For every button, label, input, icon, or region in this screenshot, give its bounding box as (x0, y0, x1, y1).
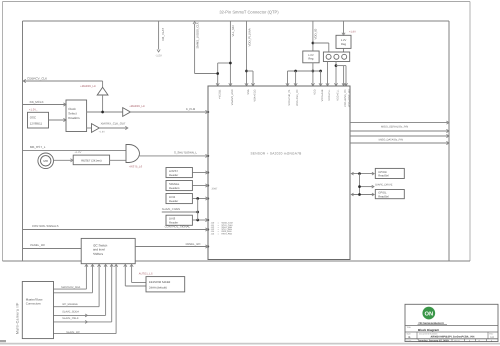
svg-text:SMMS_LVDS0_CLK: SMMS_LVDS0_CLK (196, 22, 200, 49)
rev cell (487, 332, 489, 339)
reset supervisor U7 (73, 155, 109, 165)
svg-text:VDD: VDD (314, 89, 317, 94)
title block divider (405, 338, 498, 340)
title block divider (405, 331, 498, 333)
svg-text:GPIO8: GPIO8 (378, 171, 387, 174)
junction dot (216, 72, 219, 75)
wire K_PLM to sensor (130, 111, 206, 113)
svg-text:VDD+12V5_PD: VDD+12V5_PD (344, 89, 347, 107)
pin arrow into sensor top (251, 83, 254, 86)
title block divider (405, 324, 498, 326)
svg-text:ON: ON (424, 310, 433, 317)
rail wire y71 (288, 70, 321, 72)
buffer U6 (92, 124, 100, 133)
wire direction arrow (85, 314, 87, 317)
svg-text:GPIOL: GPIOL (378, 192, 387, 195)
power tap wire KB_VLAT (158, 21, 160, 50)
buffer U4 clock buffer up (102, 81, 104, 87)
svg-text:S_SHUTDOWN_L: S_SHUTDOWN_L (174, 150, 197, 154)
junction dot (229, 62, 232, 65)
wire control signals (23, 229, 207, 231)
svg-text:AUTO1_LS: AUTO1_LS (139, 273, 153, 276)
junction dot (358, 172, 361, 175)
svg-text:ReadSel: ReadSel (378, 195, 389, 198)
svg-text:SLAVE_I2C: SLAVE_I2C (66, 331, 80, 334)
svg-text:VNA: VNA (247, 89, 250, 94)
ON Semiconductor logo (423, 307, 436, 320)
pin arrow into sensor top (286, 83, 289, 86)
wire i2c riser (54, 306, 100, 308)
push button SW1 MR (38, 153, 54, 169)
svg-text:RST0_PAN: RST0_PAN (221, 232, 232, 235)
svg-text:VDD+PH1_PC: VDD+PH1_PC (296, 89, 299, 106)
svg-text:+1.8V: +1.8V (349, 30, 356, 33)
branch to filter box (313, 42, 329, 44)
svg-text:+1.5V_: +1.5V_ (29, 109, 38, 112)
wire i2c riser (54, 288, 87, 290)
wire SMMS_LVDS0 to connector (194, 24, 196, 74)
wire to xmit buffer (87, 127, 92, 129)
wire osc output (49, 119, 65, 121)
wire panel i2c to sensor (135, 246, 207, 248)
wire reset out to gate (110, 159, 126, 161)
wire MOSI pair line 1 (350, 122, 448, 124)
filter FB1 ferrite bead array (323, 52, 349, 62)
svg-text:-1.5V: -1.5V (155, 55, 162, 58)
bottom page edge line (0, 343, 500, 345)
wire pin VCG11 (217, 74, 219, 86)
wire pin VNA from connector (246, 21, 248, 85)
svg-text:MOSI_SERIAL/Ox_P/N: MOSI_SERIAL/Ox_P/N (381, 126, 408, 129)
svg-text:24AA (default): 24AA (default) (149, 286, 167, 290)
svg-text:32-Pin SmmsT Connector (QTP): 32-Pin SmmsT Connector (QTP) (219, 10, 279, 15)
junction dot (196, 197, 199, 200)
svg-text:SENSOR + SA2020 mONGA7B: SENSOR + SA2020 mONGA7B (250, 151, 301, 155)
svg-text:MASTER2_SDA: MASTER2_SDA (61, 286, 80, 289)
svg-text:ReadSel: ReadSel (378, 175, 389, 178)
svg-text:AR0820-MIPI&SPI_SerDesPCBA_V04: AR0820-MIPI&SPI_SerDesPCBA_V04 (431, 336, 476, 339)
junction dot (294, 70, 297, 73)
junction dot (101, 111, 104, 114)
svg-text:VLL_NN: VLL_NN (231, 26, 235, 37)
svg-text:CONTROL SIGNALS: CONTROL SIGNALS (32, 224, 59, 228)
wire gpio8 bus (351, 173, 374, 175)
block DVI2 Reader (166, 194, 192, 204)
svg-text:Connectors: Connectors (26, 302, 41, 306)
junction dot (319, 70, 322, 73)
svg-text:Multi-Camera I/F: Multi-Camera I/F (15, 302, 19, 334)
oscillator Y1 (28, 112, 49, 128)
wire i2c riser (132, 282, 146, 284)
wire reg output down (312, 63, 314, 85)
junction dot (196, 211, 199, 214)
svg-text:3047: 3047 (212, 187, 218, 190)
junction dot (335, 64, 338, 67)
svg-text:VGA+ECG: VGA+ECG (254, 89, 257, 101)
pin arrow into sensor top (344, 83, 347, 86)
clock select block (66, 100, 87, 132)
svg-text:VDD+ELL: VDD+ELL (337, 89, 340, 101)
pin arrow into sensor top (311, 83, 314, 86)
wire i2c riser (54, 321, 112, 323)
svg-text:+MARK5_L8: +MARK5_L8 (80, 85, 96, 88)
svg-text:EEPROM 64KBit: EEPROM 64KBit (149, 280, 170, 284)
svg-text:CDBRCV_CLK: CDBRCV_CLK (27, 77, 47, 81)
svg-text:+1.8V: +1.8V (75, 151, 82, 154)
block SIGNAL Readers (166, 181, 192, 191)
svg-text:MB_RST_L: MB_RST_L (30, 145, 46, 149)
svg-text:Reader: Reader (169, 173, 178, 177)
pin arrow into sensor top (216, 83, 219, 86)
svg-text:+1.8V: +1.8V (99, 130, 106, 133)
i2c switch block (81, 238, 135, 263)
svg-text:Shifters: Shifters (93, 252, 104, 256)
pin arrow into sensor top (229, 83, 232, 86)
svg-text:Block Diagram: Block Diagram (418, 328, 439, 332)
svg-text:Readers: Readers (169, 186, 180, 190)
svg-text:1.0V: 1.0V (308, 54, 314, 57)
svg-text:VDD+PH0_P1: VDD+PH0_P1 (288, 89, 291, 106)
pin arrow into sensor top (342, 83, 345, 86)
wire i2c riser (54, 292, 93, 294)
junction dot (312, 42, 315, 45)
wire KB_MCLK input (23, 104, 65, 106)
svg-text:Select: Select (68, 111, 77, 115)
wire direction arrow (85, 320, 87, 323)
block DVI3 Reader (166, 215, 192, 225)
svg-text:+MARK5_L8: +MARK5_L8 (129, 105, 145, 108)
bottom-left page mark (0, 340, 6, 342)
pin arrow into sensor top (326, 83, 329, 86)
block A7RST Reader (166, 168, 192, 178)
wire XMITRX_CLK_OUT (99, 127, 126, 129)
connector J1 master/slave (22, 282, 53, 339)
svg-text:Reg: Reg (308, 58, 313, 61)
pin arrow into sensor top (294, 83, 297, 86)
svg-text:PANEL_I2C: PANEL_I2C (30, 243, 45, 247)
buffer U5 (123, 108, 131, 117)
wire i2c riser (54, 333, 117, 335)
block GPIOL ReadSel (375, 190, 404, 199)
svg-text:VGA/V9_AND: VGA/V9_AND (231, 89, 234, 105)
svg-text:VDD+12VT_PN: VDD+12VT_PN (348, 89, 351, 107)
page border (3, 1, 471, 3)
svg-text:VDD_IO: VDD_IO (314, 28, 318, 40)
svg-text:RESET (241ms): RESET (241ms) (81, 158, 101, 162)
pin arrow into sensor top (245, 83, 248, 86)
wire i2c riser (54, 314, 106, 316)
regulator U3 1.2V Reg (336, 35, 351, 48)
svg-text:Reg: Reg (341, 43, 346, 46)
svg-text:XMITRX_CLK_OUT: XMITRX_CLK_OUT (101, 122, 126, 126)
svg-text:VDD+AHB: VDD+AHB (321, 89, 324, 101)
svg-text:Readers: Readers (68, 116, 80, 120)
svg-text:12788511: 12788511 (30, 121, 43, 125)
wire 1.0V reg feed from connector (312, 21, 314, 51)
svg-text:CONTROL_SIGNAL: CONTROL_SIGNAL (165, 224, 191, 228)
wire CDBRCV_CLK to frame (23, 80, 103, 82)
wire SLAVE_CHAIN (162, 211, 198, 213)
title block (405, 304, 498, 341)
svg-text:KB_MCLK: KB_MCLK (30, 100, 44, 104)
pin connection dots on sensor left edge (207, 111, 209, 113)
wire MB_RST_L to gate (23, 150, 127, 152)
filter outputs to chip (327, 62, 329, 86)
svg-text:SLAVE_CBLK: SLAVE_CBLK (62, 317, 79, 320)
pin arrow into sensor top (319, 83, 322, 86)
regulator U2 1.0V Reg (303, 51, 319, 63)
wire MISO pair line 2 (350, 142, 448, 144)
svg-text:SLAVE_CHAIN: SLAVE_CHAIN (162, 208, 180, 211)
junction dot (312, 70, 315, 73)
svg-text:MISO_DATA/Ox_P/N: MISO_DATA/Ox_P/N (379, 139, 404, 142)
svg-text:VDD+PLL: VDD+PLL (328, 89, 331, 101)
svg-text:+VCG11: +VCG11 (218, 89, 221, 99)
svg-text:OSC: OSC (30, 116, 36, 120)
svg-text:Clock: Clock (68, 107, 76, 111)
sensor U1 AR0820 block (208, 86, 350, 260)
wire clock out K_PLM (87, 111, 123, 113)
junction dot (358, 193, 361, 196)
wire gpiol bus (351, 194, 374, 196)
wire 1.2V reg feed (343, 21, 345, 34)
svg-text:K_PLM: K_PLM (186, 107, 196, 111)
svg-text:Reader: Reader (169, 199, 178, 203)
branch wire to VGA+ECG pin (247, 70, 254, 72)
svg-text:Title:: Title: (407, 326, 412, 329)
schematic frame (23, 20, 450, 22)
junction dot (196, 219, 199, 222)
svg-text:ON Semiconductor®: ON Semiconductor® (419, 322, 444, 325)
wire DIAPE_DRIVE stub (360, 186, 373, 188)
svg-text:DIAPE_DRIVE: DIAPE_DRIVE (375, 183, 392, 186)
pin arrow into sensor top (334, 83, 337, 86)
svg-text:MR: MR (43, 159, 48, 163)
svg-text:1.2V: 1.2V (341, 39, 347, 42)
wire MR to reset (54, 159, 72, 161)
svg-text:KB_VLAT: KB_VLAT (161, 28, 165, 41)
junction dot (245, 70, 248, 73)
eeprom U9 (146, 277, 185, 292)
svg-text:SLAVE_SDDA: SLAVE_SDDA (62, 311, 79, 314)
svg-text:+RST5_L6: +RST5_L6 (129, 164, 143, 168)
gpio vertical wire (359, 174, 361, 195)
svg-text:VDD_PLLVAA: VDD_PLLVAA (247, 28, 251, 46)
svg-text:Tuesday, January 15, 2019: Tuesday, January 15, 2019 (418, 339, 450, 342)
wire panel i2c to switch (23, 248, 82, 250)
svg-text:I2C_ENABLE: I2C_ENABLE (62, 303, 78, 306)
junction dot (358, 185, 361, 188)
svg-text:Date:: Date: (407, 339, 413, 342)
svg-text:Sheet: Sheet (454, 339, 460, 342)
or-gate U8 (126, 145, 140, 163)
svg-text:PANEL_I2C: PANEL_I2C (186, 242, 201, 246)
block GPIO8 ReadSel (375, 168, 404, 178)
wire pin VGA from connector (229, 21, 231, 85)
wire MOSI pair line 2 (350, 130, 448, 132)
wire S_SHUTDOWN_L to sensor (140, 155, 207, 157)
wire chain vertical (197, 199, 199, 221)
wire MISO pair line 1 (350, 135, 448, 137)
wire i2c riser (125, 285, 146, 287)
